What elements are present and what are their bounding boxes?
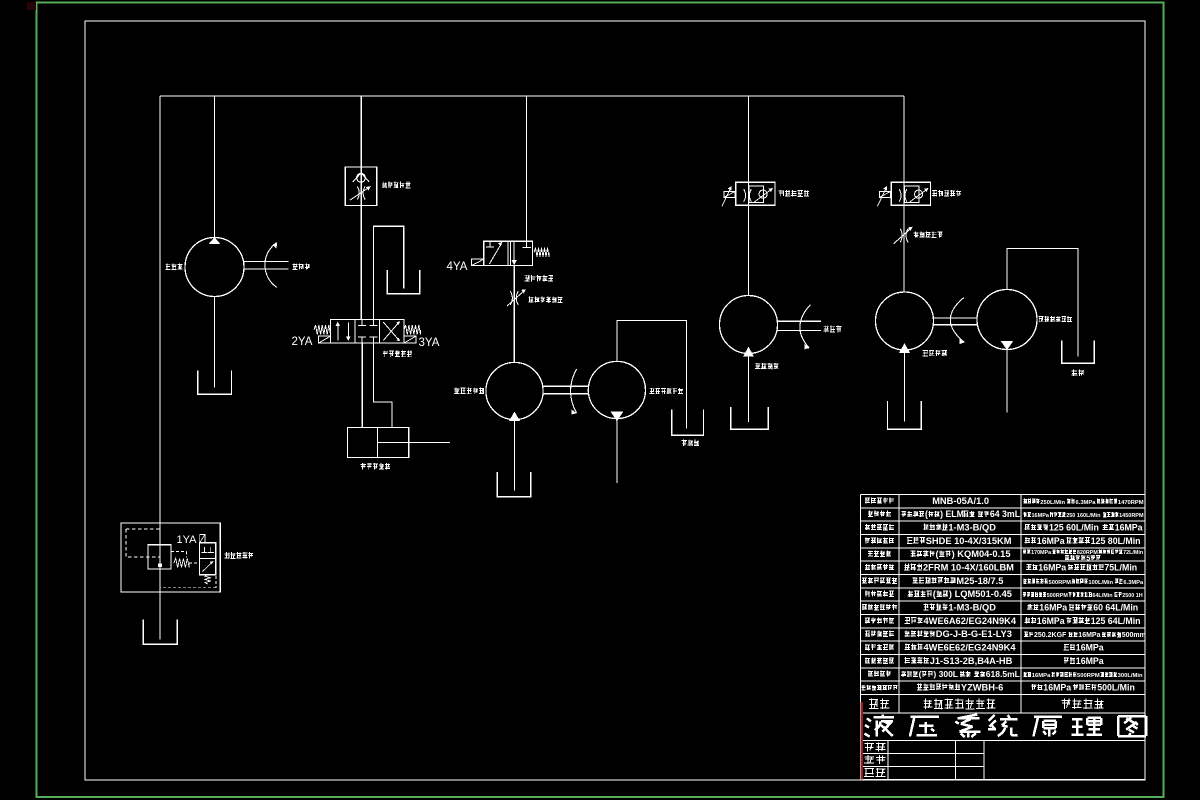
svg-text:250.2KGF: 250.2KGF xyxy=(1034,632,1067,639)
svg-text:YZWBH-6: YZWBH-6 xyxy=(961,682,1003,692)
svg-text:500L/Min: 500L/Min xyxy=(1097,682,1135,692)
svg-text:16MPa: 16MPa xyxy=(1115,522,1143,532)
svg-text:4WE6A62/EG24N9K4: 4WE6A62/EG24N9K4 xyxy=(924,616,1017,626)
svg-text:125 64L/Min: 125 64L/Min xyxy=(1091,616,1141,626)
svg-text:500RPM: 500RPM xyxy=(1077,673,1100,679)
svg-text:125 80L/Min: 125 80L/Min xyxy=(1091,536,1141,546)
svg-text:) ELM: ) ELM xyxy=(940,509,964,519)
svg-text:100L/Min: 100L/Min xyxy=(1088,580,1113,586)
svg-text:2FRM 10-4X/160LBM: 2FRM 10-4X/160LBM xyxy=(923,562,1014,572)
svg-text:64 3mL: 64 3mL xyxy=(990,509,1021,519)
svg-text:) LQM501-0.45: ) LQM501-0.45 xyxy=(949,589,1012,599)
svg-text:6.3MPa: 6.3MPa xyxy=(1076,500,1097,506)
svg-text:16MPa: 16MPa xyxy=(1078,632,1100,639)
svg-text:1YA: 1YA xyxy=(177,534,198,546)
svg-text:4WE6E62/EG24N9K4: 4WE6E62/EG24N9K4 xyxy=(924,642,1017,652)
svg-text:125 60L/Min: 125 60L/Min xyxy=(1049,522,1099,532)
svg-text:16MPa: 16MPa xyxy=(1037,616,1065,626)
svg-text:250 160L/Min: 250 160L/Min xyxy=(1066,513,1101,519)
svg-text:) KQM04-0.15: ) KQM04-0.15 xyxy=(952,549,1011,559)
svg-text:250L/Min: 250L/Min xyxy=(1040,500,1065,506)
svg-text:4YA: 4YA xyxy=(447,261,468,273)
svg-text:300L/Min: 300L/Min xyxy=(1118,673,1143,679)
svg-text:5: 5 xyxy=(1086,553,1090,562)
svg-text:75L/Min: 75L/Min xyxy=(1104,562,1137,572)
svg-text:500RPM: 500RPM xyxy=(1047,593,1069,599)
svg-text:60 64L/Min: 60 64L/Min xyxy=(1093,602,1138,612)
svg-text:(: ( xyxy=(919,669,922,679)
svg-text:2YA: 2YA xyxy=(292,336,313,348)
svg-text:72L/Min: 72L/Min xyxy=(1123,550,1143,556)
svg-text:618.5mL: 618.5mL xyxy=(986,669,1020,679)
svg-text:2500 1H: 2500 1H xyxy=(1122,593,1143,599)
svg-text:1470RPM: 1470RPM xyxy=(1118,500,1144,506)
svg-text:500mm: 500mm xyxy=(1122,632,1146,639)
svg-text:500RPM: 500RPM xyxy=(1049,580,1072,586)
svg-text:MNB-05A/1.0: MNB-05A/1.0 xyxy=(932,496,989,506)
svg-text:16MPa: 16MPa xyxy=(1076,656,1104,666)
svg-text:3YA: 3YA xyxy=(419,337,440,349)
svg-text:(: ( xyxy=(925,509,928,519)
svg-text:16MPa: 16MPa xyxy=(1039,602,1067,612)
svg-text:1450RPM: 1450RPM xyxy=(1119,513,1144,519)
svg-text:16MPa: 16MPa xyxy=(1032,673,1051,679)
svg-text:6.3MPa: 6.3MPa xyxy=(1123,580,1144,586)
svg-text:M25-18/7.5: M25-18/7.5 xyxy=(956,576,1003,586)
svg-text:16MPa: 16MPa xyxy=(1037,536,1065,546)
svg-text:1-M3-B/QD: 1-M3-B/QD xyxy=(948,522,996,532)
svg-text:) 300L: ) 300L xyxy=(933,669,958,679)
svg-text:16MPa: 16MPa xyxy=(1032,513,1050,519)
svg-text:64L/Min: 64L/Min xyxy=(1092,593,1112,599)
svg-text:16MPa: 16MPa xyxy=(1043,682,1071,692)
svg-text:J1-S13-2B,B4A-HB: J1-S13-2B,B4A-HB xyxy=(930,656,1013,666)
svg-text:16MPa: 16MPa xyxy=(1076,642,1104,652)
svg-text:SHDE 10-4X/315KM: SHDE 10-4X/315KM xyxy=(926,536,1012,546)
svg-text:16MPa: 16MPa xyxy=(1038,562,1066,572)
svg-text:1-M3-B/QD: 1-M3-B/QD xyxy=(948,602,996,612)
svg-text:DG-J-B-G-E1-LY3: DG-J-B-G-E1-LY3 xyxy=(936,629,1012,639)
svg-text:170MPa: 170MPa xyxy=(1031,550,1052,556)
